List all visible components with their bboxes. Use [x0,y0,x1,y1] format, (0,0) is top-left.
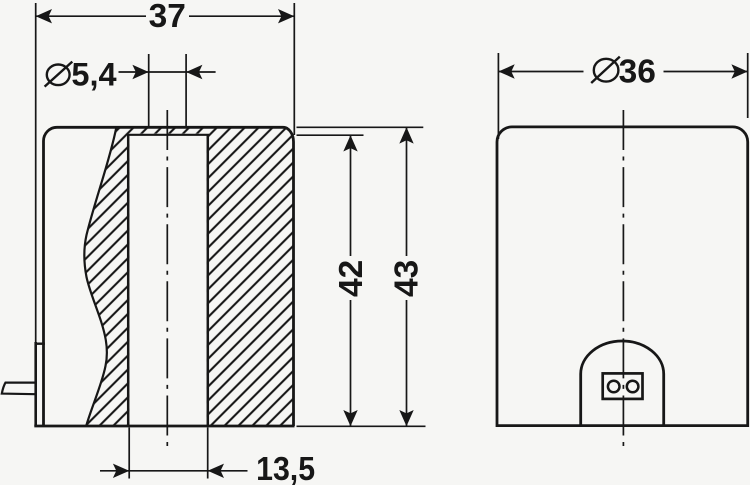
right view: connector dome [581,341,664,425]
dimension 42: dimension line [350,135,352,256]
dimension 13,5: dimension line [100,470,208,472]
right view: centerline [622,110,624,446]
coil body outline (left sectional view) [44,127,294,426]
svg-text:5,4: 5,4 [71,57,116,93]
dimension d5,4: extension lines [148,54,150,127]
svg-text:37: 37 [149,0,186,35]
centerline left view [166,110,168,446]
bore cavity (white) [129,134,206,426]
dimension 42: arrows [343,135,357,151]
dimension 37: dimension line [36,15,146,17]
dimension 43: extension line top [297,126,424,128]
svg-text:36: 36 [619,53,656,90]
mounting bracket left edge [34,342,37,426]
dimension 13,5: arrows [113,464,129,478]
right view: pin right [627,381,639,393]
dimension d36: dimension line [498,71,583,73]
dimension d5,4: arrows [132,65,148,79]
dimension 13,5: extension lines [128,428,130,479]
dimension 43: arrows [399,127,413,143]
svg-text:43: 43 [389,260,426,297]
bottom edge [34,425,294,428]
bore left wall [127,135,130,426]
dimension 37: extension line left [35,3,37,342]
dimension d36: arrows [498,64,514,78]
break (wavy) line [84,128,116,426]
dimension d36: extension lines [497,53,499,139]
terminal tab [2,383,36,395]
dimension 37: arrow right [278,9,294,23]
bore top line [127,134,209,136]
dimension 37: arrow left [36,9,52,23]
right view: coil body [497,127,748,426]
section hatching (left view) [80,124,300,429]
dimension 37: extension line right [293,3,295,135]
dimension d5,4: diameter symbol [47,65,70,86]
bracket step [35,343,45,345]
svg-text:42: 42 [333,260,370,297]
svg-text:13,5: 13,5 [256,451,315,485]
dimension 42: extension line [297,134,364,136]
right view: socket rectangle [603,373,643,399]
dimension 43: dimension line [406,127,408,256]
shared bottom extension line [297,425,426,427]
dimension d5,4: dimension line [119,71,149,73]
dimension d36: diameter symbol [594,59,619,82]
right view: pin left [608,381,620,393]
bore right wall [207,135,210,426]
